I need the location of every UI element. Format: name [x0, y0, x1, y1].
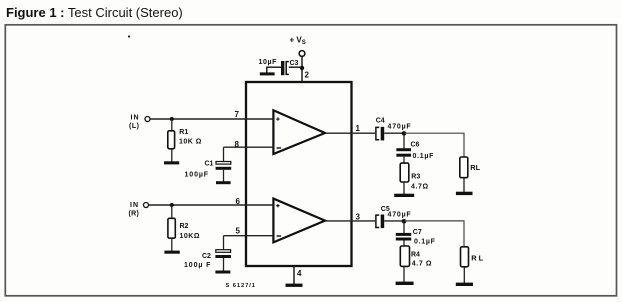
wire R2 to ground: [171, 238, 173, 251]
capacitor C3 solid plate: [281, 61, 284, 75]
capacitor C5 bracket plate: [376, 215, 379, 227]
svg-text:R3: R3: [411, 174, 420, 181]
op-amp A2: [273, 199, 325, 243]
capacitor C4 solid plate: [381, 127, 385, 141]
svg-text:0.1µF: 0.1µF: [413, 153, 435, 160]
svg-text:100µF: 100µF: [185, 172, 210, 179]
op-amp A2 minus input mark: [277, 235, 282, 237]
svg-text:S 6127/1: S 6127/1: [226, 283, 256, 289]
IC box U1: [246, 82, 352, 266]
svg-text:4: 4: [297, 269, 302, 278]
svg-text:(L): (L): [129, 123, 139, 130]
wire C3 to ground: [267, 67, 281, 73]
wire C2 to ground: [223, 258, 225, 271]
op-amp A2 plus input mark: [276, 204, 279, 207]
wire R4 to ground: [403, 266, 405, 282]
wire junction to RL2: [404, 221, 464, 247]
capacitor C1 top plate: [216, 162, 231, 165]
svg-text:IN: IN: [131, 115, 140, 122]
svg-text:RL: RL: [470, 163, 480, 172]
node output 2 junction: [402, 219, 407, 224]
resistor R3: [400, 163, 409, 182]
ground C1: [216, 181, 231, 184]
ground pin 4: [286, 284, 303, 287]
wire IN L to pin 7: [150, 118, 273, 120]
ground R3: [394, 194, 414, 197]
capacitor C4 bracket plate: [376, 127, 379, 139]
svg-text:470µF: 470µF: [388, 212, 412, 219]
wire C2 stem: [223, 236, 225, 250]
ground C3: [260, 72, 275, 75]
svg-text:4.7Ω: 4.7Ω: [411, 184, 429, 191]
capacitor C3 bracket plate: [286, 62, 289, 75]
resistor RL1: [460, 157, 468, 178]
wire pin 4 to ground: [293, 266, 295, 284]
capacitor C6 bottom plate: [396, 154, 411, 157]
svg-text:4.7 Ω: 4.7 Ω: [412, 261, 432, 268]
svg-text:Figure 1 : Test Circuit (Stere: Figure 1 : Test Circuit (Stereo): [6, 5, 183, 20]
resistor R2: [168, 218, 175, 238]
stray dot: [128, 35, 130, 37]
capacitor C7 top plate: [396, 233, 411, 236]
wire junction to RL1: [404, 133, 464, 157]
wire pin 5 to C2: [224, 235, 274, 237]
resistor RL2: [461, 247, 469, 267]
capacitor C2 top plate: [216, 250, 231, 253]
wire node to C3: [289, 66, 302, 68]
ground RL1: [456, 192, 473, 195]
svg-text:10K Ω: 10K Ω: [179, 139, 202, 146]
svg-text:2: 2: [305, 71, 310, 80]
capacitor C6 top plate: [396, 148, 411, 151]
wire C7 stem: [403, 221, 405, 233]
wire RL1 to ground: [463, 178, 465, 192]
op-amp A1: [273, 110, 325, 154]
resistor R4: [400, 246, 409, 266]
svg-text:R1: R1: [179, 129, 188, 136]
wire R3 to ground: [403, 182, 405, 194]
svg-text:100µ F: 100µ F: [184, 262, 211, 269]
wire R1 stem top: [171, 119, 173, 131]
svg-text:IN: IN: [130, 202, 139, 209]
wire C5 to RL junction: [384, 220, 404, 222]
svg-text:3: 3: [356, 213, 361, 222]
wire C1 to ground: [223, 170, 225, 182]
ground C2: [215, 271, 230, 274]
wire pin 1 output to C4: [325, 132, 375, 134]
ground R1: [164, 161, 179, 164]
svg-text:10µF: 10µF: [259, 59, 278, 66]
svg-text:R L: R L: [471, 254, 483, 263]
ground RL2: [456, 283, 473, 286]
wire C6 stem: [403, 133, 405, 148]
svg-text:C3: C3: [290, 60, 299, 67]
node output 1 junction: [402, 131, 407, 136]
wire C4 to RL junction: [384, 132, 404, 134]
svg-text:R4: R4: [411, 252, 420, 259]
node supply junction: [300, 66, 304, 70]
resistor R1: [168, 131, 175, 149]
svg-text:C1: C1: [205, 161, 214, 168]
wire supply vertical: [301, 56, 303, 82]
svg-text:C6: C6: [411, 142, 420, 149]
svg-text:470µF: 470µF: [388, 124, 412, 131]
capacitor C7 bottom plate: [396, 238, 411, 241]
wire C6 to R3: [403, 157, 405, 164]
wire R2 stem top: [171, 205, 173, 218]
svg-text:5: 5: [236, 227, 241, 236]
svg-text:0.1µF: 0.1µF: [414, 239, 436, 246]
svg-text:10KΩ: 10KΩ: [180, 233, 200, 240]
wire R1 to ground: [171, 149, 173, 162]
wire pin 8 to C1: [224, 146, 274, 148]
svg-text:(R): (R): [129, 211, 140, 218]
svg-text:C4: C4: [376, 118, 385, 125]
op-amp A1 plus input mark: [276, 117, 279, 120]
svg-text:6: 6: [236, 197, 241, 206]
capacitor C2 bottom plate: [215, 255, 231, 258]
svg-text:C7: C7: [413, 229, 422, 236]
svg-text:R2: R2: [180, 223, 189, 230]
op-amp A1 minus input mark: [277, 147, 282, 149]
svg-text:1: 1: [356, 124, 361, 133]
wire pin 3 output to C5: [325, 220, 375, 222]
wire IN R to pin 6: [149, 204, 274, 206]
ground R4: [396, 282, 414, 285]
capacitor C1 bottom plate: [216, 167, 232, 170]
svg-text:C2: C2: [202, 253, 211, 260]
wire C7 to R4: [403, 241, 405, 247]
wire C1 stem: [223, 147, 225, 162]
svg-text:7: 7: [235, 110, 240, 119]
node input R junction: [170, 203, 174, 207]
ground R2: [164, 251, 179, 254]
capacitor C5 solid plate: [381, 215, 385, 229]
wire RL2 to ground: [463, 267, 465, 283]
node input L junction: [170, 117, 174, 121]
